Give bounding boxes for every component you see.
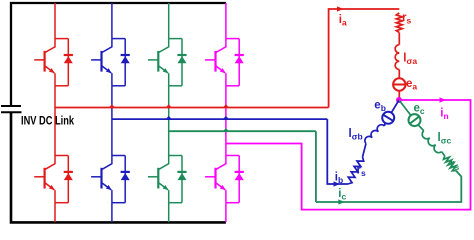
svg-text:INV DC Link: INV DC Link xyxy=(21,115,74,127)
